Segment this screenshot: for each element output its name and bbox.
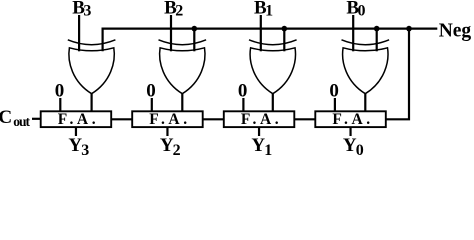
wire Neg rail with corner into XOR U3 right input	[103, 29, 438, 52]
wire Neg rail down to FA0 carry-in	[386, 29, 409, 120]
wire XOR U0 output to FA0	[364, 94, 366, 112]
label B1	[254, 0, 273, 19]
full adder FA0 box	[315, 111, 386, 127]
xor gate U1	[249, 40, 297, 94]
xor gate U3	[68, 40, 116, 94]
svg-text:F.A.: F.A.	[241, 111, 282, 128]
svg-text:0: 0	[358, 2, 366, 19]
xor gate U2	[159, 40, 207, 94]
svg-text:C: C	[0, 107, 12, 128]
svg-text:Neg: Neg	[439, 21, 472, 42]
wire XOR U0 right input drop from Neg rail	[376, 29, 378, 52]
wire Cout to FA3	[32, 118, 41, 120]
full adder FA3 box	[41, 111, 112, 127]
svg-text:0: 0	[356, 142, 364, 156]
label B0	[346, 0, 365, 19]
junction dot Neg rail to U2	[192, 26, 198, 32]
wire XOR U2 right input drop from Neg rail	[193, 29, 195, 52]
label Y1	[251, 135, 272, 159]
svg-text:0: 0	[146, 80, 156, 101]
svg-text:0: 0	[238, 80, 248, 101]
wire carry FA1 to FA2	[203, 118, 224, 120]
label Y0	[343, 135, 364, 159]
wire Y3 sum output	[75, 127, 77, 136]
wire XOR U1 output to FA1	[272, 94, 274, 112]
wire constant 0 into FA3	[59, 98, 61, 111]
svg-text:3: 3	[81, 142, 89, 156]
wire Y0 sum output	[349, 127, 351, 136]
wire constant 0 into FA2	[151, 98, 153, 111]
svg-text:F.A.: F.A.	[149, 111, 190, 128]
wire carry FA0 to FA1	[294, 118, 315, 120]
wire carry FA2 to FA3	[111, 118, 132, 120]
svg-text:2: 2	[175, 2, 183, 19]
wire XOR U2 output to FA2	[181, 94, 183, 112]
label Cout	[0, 107, 31, 129]
label B3	[72, 0, 91, 19]
full adder FA2 box	[132, 111, 203, 127]
wire constant 0 into FA1	[242, 98, 244, 111]
junction dot Neg rail to U1	[282, 26, 288, 32]
label Y3	[68, 135, 89, 159]
xor gate U0	[342, 40, 390, 94]
wire constant 0 into FA0	[334, 98, 336, 111]
svg-text:2: 2	[173, 142, 181, 156]
wire B2 input	[170, 15, 172, 51]
wire XOR U1 right input drop from Neg rail	[283, 29, 285, 52]
wire B0 input	[352, 15, 354, 51]
label B2	[164, 0, 183, 19]
svg-text:0: 0	[329, 80, 339, 101]
junction dot Neg rail to FA0 carry-in	[406, 26, 412, 32]
full adder FA1 box	[224, 111, 294, 127]
wire Y2 sum output	[166, 127, 168, 136]
wire B1 input	[260, 15, 262, 51]
svg-text:F.A.: F.A.	[58, 111, 99, 128]
svg-text:0: 0	[55, 80, 65, 101]
label Y2	[160, 135, 181, 159]
junction dot Neg rail to U0	[374, 26, 380, 32]
svg-text:out: out	[13, 114, 30, 129]
wire XOR U3 output to FA3	[90, 94, 92, 112]
wire B3 input	[78, 15, 80, 51]
svg-text:1: 1	[264, 142, 272, 156]
svg-text:3: 3	[83, 2, 91, 19]
wire Y1 sum output	[258, 127, 260, 136]
svg-text:F.A.: F.A.	[332, 111, 373, 128]
svg-text:1: 1	[265, 2, 273, 19]
